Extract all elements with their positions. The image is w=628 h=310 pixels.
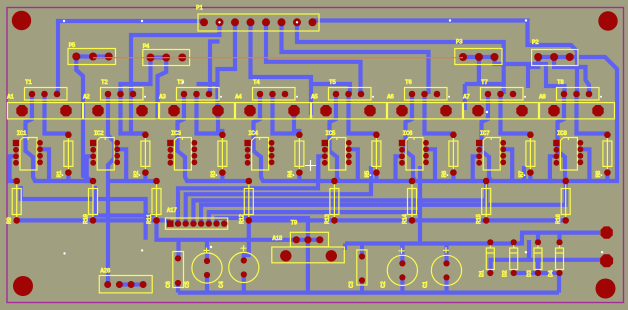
relay A8 <box>540 103 615 119</box>
pad right octagon 1 <box>600 226 612 238</box>
mounting hole bottom-right <box>596 279 616 299</box>
resistor R15 <box>485 184 487 217</box>
wire C3 top up <box>360 244 364 257</box>
op-amp IC3 <box>174 138 191 171</box>
wire A4-A5 gap branch down <box>309 84 313 115</box>
resistor R5 <box>375 137 377 170</box>
resistor R8 <box>606 137 608 170</box>
svg-text:T4: T4 <box>253 79 260 86</box>
svg-text:A2: A2 <box>83 94 90 101</box>
resistor R6 <box>452 137 454 170</box>
connector T1 <box>25 88 68 101</box>
transformer T9 <box>272 247 345 263</box>
svg-text:D1: D1 <box>478 270 485 277</box>
svg-text:T5: T5 <box>329 79 336 86</box>
wire T6 pad2 down to R6 top <box>425 94 454 135</box>
wire P3 pad2 down to y84 bar <box>477 57 481 84</box>
connector T2 <box>101 88 144 101</box>
wire T3 bar from pad3 route to T3 pad2 <box>197 82 218 86</box>
svg-text:P1: P1 <box>196 5 203 12</box>
wire P1 pad3 to A3 right big pad <box>218 22 236 110</box>
relay A3 <box>160 103 235 119</box>
wire C5 top stub <box>205 240 209 261</box>
wire C1 bottom to bus <box>444 279 448 293</box>
wire C6 top stub <box>176 240 180 259</box>
op-amp IC1 <box>20 138 37 171</box>
wire P1 pad6 to T6 pad2 <box>282 22 429 94</box>
wire P1 pad2 to R2 top via x131 <box>131 22 220 134</box>
wire top right rail from P1 pad8 to P2 pad3 <box>314 21 577 95</box>
resistor R10 <box>92 184 94 217</box>
wire T4 pad2 down to R4 top <box>273 94 300 135</box>
svg-text:A5: A5 <box>311 94 318 101</box>
wire R7 bottom to y181 run <box>528 173 532 181</box>
wire T3 pad2 down to R3 top <box>197 94 223 135</box>
wire T8 pad2 down to R8 top <box>577 94 608 135</box>
wire channel6 vertical to caps bus <box>418 166 422 244</box>
resistor R7 <box>529 137 531 170</box>
wire mid line A channel1 to fan area <box>21 186 146 240</box>
wire P4 pad1 down to T2 pad2 <box>121 58 151 95</box>
wire IC6 left pad3 to y181 run <box>396 156 403 181</box>
wire A18 middle pad down to bottom bus <box>306 240 310 293</box>
pad right octagon 2 <box>600 254 613 267</box>
wire P2 pad2 over to T8 pad3 <box>554 57 589 94</box>
wire IC2 left pad3 to y181 run <box>87 156 94 181</box>
connector T4 <box>253 88 296 101</box>
ratsnest airwire P5 to P3 <box>93 57 463 59</box>
svg-text:R10: R10 <box>83 214 90 224</box>
svg-text:D3: D3 <box>526 270 533 277</box>
connector T8 <box>557 88 600 101</box>
svg-text:R4: R4 <box>287 170 294 177</box>
wire A17 pad6 level to channel6 drop <box>209 212 420 224</box>
svg-text:C2: C2 <box>380 281 387 288</box>
svg-text:IC3: IC3 <box>171 130 181 137</box>
wire A17 pad2 level up at channel5 <box>178 166 318 224</box>
svg-text:IC7: IC7 <box>480 130 490 137</box>
wire P1 pad4 down then right to T5 pad2 <box>251 22 351 94</box>
svg-text:A6: A6 <box>387 94 394 101</box>
relay A6 <box>388 103 463 119</box>
wire A3 right pad down to R3 top <box>218 110 222 135</box>
svg-text:IC5: IC5 <box>325 130 335 137</box>
wire C5 bottom to bus <box>205 275 209 293</box>
svg-text:A18: A18 <box>272 235 282 242</box>
resistor R4 <box>298 137 300 170</box>
wire T5 pad1 down to y181 run channel 5 <box>330 94 413 181</box>
wire D1 bottom to octagon pad 2 <box>491 260 600 273</box>
wire P1 pad1 left rail to T1 pad3 <box>57 21 205 94</box>
wire P1 pad7 down to T7 pad2 bar <box>297 22 504 84</box>
diode D2 <box>513 244 515 248</box>
connector T6 <box>405 88 448 101</box>
resistor R12 <box>248 184 250 217</box>
wire D2-D4 bottom bus down to bottom bus <box>514 273 559 293</box>
wire P3 pad3 over to T8 pad1 <box>495 57 565 94</box>
svg-text:R16: R16 <box>555 214 562 224</box>
wire C1 top stub <box>444 244 448 263</box>
svg-text:R8: R8 <box>595 170 602 177</box>
diode D1 <box>489 244 491 248</box>
wire T8 pad1 down to y181 run channel 8 <box>558 94 608 181</box>
wire R2 bottom to y181 run <box>143 173 147 181</box>
resistor R14 <box>411 184 413 217</box>
connector A17 <box>165 218 227 229</box>
svg-text:A7: A7 <box>463 94 470 101</box>
resistor R11 <box>156 184 158 217</box>
op-amp IC6 <box>406 138 423 171</box>
svg-text:IC6: IC6 <box>403 130 413 137</box>
resistor R2 <box>144 137 146 170</box>
wire IC5 left pad3 to y181 run <box>318 156 325 181</box>
diode D4 <box>559 244 561 248</box>
capacitor C6 <box>173 252 184 288</box>
wire mid line B to R11 area <box>95 186 155 216</box>
connector P2 <box>538 55 570 59</box>
wire IC2 right pad2 jog <box>117 149 126 181</box>
wire IC8 right pad2 jog <box>580 149 589 181</box>
connector T5 <box>329 88 372 101</box>
wire C4 bottom to bus <box>242 275 246 293</box>
wire R12 bottom down to C4 top <box>244 220 249 260</box>
wire A4 right pad down to R4 top <box>294 110 299 135</box>
svg-text:T8: T8 <box>557 79 564 86</box>
relay A5 <box>312 103 387 119</box>
svg-text:C1: C1 <box>422 281 429 288</box>
wire IC1 left pad3 to y181 run <box>10 156 17 181</box>
wire caps top bus to octagon pad 1 <box>345 233 600 244</box>
wire A17 pad4 level to R15 top <box>193 181 486 224</box>
capacitor C4 <box>229 252 259 282</box>
svg-text:A1: A1 <box>7 94 14 101</box>
svg-text:C6: C6 <box>165 281 172 288</box>
wire IC8 left pad3 to y181 run <box>550 156 557 181</box>
resistor R13 <box>333 184 335 217</box>
wire P2 pad1 stub <box>528 57 538 88</box>
connector A18 <box>296 238 320 242</box>
wire bottom resistor bus right R12-R16 <box>249 218 566 222</box>
wire bottom bus <box>178 291 559 295</box>
svg-text:A3: A3 <box>159 94 166 101</box>
resistor R3 <box>221 137 223 170</box>
resistor R1 <box>67 137 69 170</box>
wire T2 pad2 down to R2 top <box>121 94 146 135</box>
svg-text:C3: C3 <box>348 281 355 288</box>
op-amp IC4 <box>252 138 269 171</box>
wire C2 bottom to bus <box>400 279 404 293</box>
svg-text:R6: R6 <box>441 170 448 177</box>
op-amp IC5 <box>329 138 346 171</box>
wire P5 pad1 down through A1-A2 gap to R10 top <box>76 58 93 182</box>
svg-text:T1: T1 <box>25 79 32 86</box>
mounting hole top-left <box>12 11 31 30</box>
svg-text:R7: R7 <box>518 170 525 177</box>
wire IC7 right pad2 jog <box>503 149 512 181</box>
connector P3 <box>463 55 495 59</box>
svg-text:T6: T6 <box>405 79 412 86</box>
wire IC7 left pad3 to y181 run <box>473 156 480 181</box>
wire y84 bar left branch down A6-A7 gap <box>463 84 467 110</box>
svg-text:A8: A8 <box>539 94 546 101</box>
resistor R9 <box>16 184 18 217</box>
wire T1 pad1 down to y181 run channel 1 <box>26 94 94 181</box>
wire R4 bottom to y181 run <box>297 173 301 181</box>
svg-text:R12: R12 <box>238 214 245 224</box>
relay A1 <box>8 103 83 119</box>
mounting hole top-right <box>598 11 617 30</box>
svg-text:R1: R1 <box>56 170 63 177</box>
wire bottom resistor bus left R9-R11 to A17 pad1 <box>17 218 171 222</box>
wire A17 pad5 level to R16 top <box>201 181 566 224</box>
svg-text:P3: P3 <box>456 39 463 46</box>
wire T2 pad1 down to y181 run channel 2 <box>108 94 115 285</box>
svg-text:R2: R2 <box>133 170 140 177</box>
svg-text:R15: R15 <box>476 214 483 224</box>
wire A17 pad7 level to A18 middle <box>217 218 308 240</box>
relay A7 <box>464 103 539 119</box>
svg-text:IC8: IC8 <box>557 130 567 137</box>
wire R3 bottom to y181 run <box>220 173 224 181</box>
svg-text:P4: P4 <box>143 43 150 50</box>
cursor cross marker <box>305 160 316 171</box>
svg-text:R11: R11 <box>146 214 153 224</box>
wire D3 top stub <box>536 233 540 243</box>
capacitor C3 <box>357 250 367 285</box>
svg-text:C5: C5 <box>184 281 191 288</box>
wire P2 pad3 to right rail down to R8 bottom <box>570 57 617 181</box>
wire T7 pad2 down to R7 top <box>501 94 531 135</box>
wire T7 pad1 down to y181 run channel 7 <box>482 94 566 181</box>
svg-text:A4: A4 <box>235 94 242 101</box>
wire IC6 right pad2 jog <box>426 149 435 181</box>
connector T3 <box>177 88 220 101</box>
wire T4 pad1 down to y181 run channel 4 <box>254 94 335 181</box>
wire y84 bar at T7 <box>465 82 504 86</box>
svg-text:IC1: IC1 <box>17 130 27 137</box>
svg-text:R13: R13 <box>324 214 331 224</box>
wire P1 pad2 branch to T3 pad3 <box>210 42 220 95</box>
wire T3 pad1 down to y181 run channel 3 <box>178 94 249 181</box>
svg-text:C4: C4 <box>218 281 225 288</box>
svg-text:R9: R9 <box>6 217 13 224</box>
svg-text:D2: D2 <box>502 270 509 277</box>
resistor R16 <box>565 184 567 217</box>
wire P1 pad5 to T5 pad3 <box>266 22 361 94</box>
svg-text:P5: P5 <box>69 42 76 49</box>
wire riser from D1 line to octagon bus <box>527 240 531 260</box>
svg-text:R14: R14 <box>402 214 409 224</box>
wire D3 bottom stub up <box>536 260 540 273</box>
capacitor C5 <box>192 253 222 283</box>
wire P4 pad2 down through A2-A3 gap <box>158 58 167 121</box>
connector A26 <box>99 276 152 293</box>
wire y84 bar right branch to T7 pad2 <box>502 84 506 94</box>
diode D3 <box>537 244 539 248</box>
wire C6 bottom to bus <box>176 283 180 293</box>
wire R8 bottom to y181 run <box>605 173 609 181</box>
wire C2 top stub <box>400 244 404 263</box>
wire R5 bottom to y181 run <box>374 173 378 181</box>
wire C3 bottom to bus <box>360 280 364 292</box>
mounting hole bottom-left <box>13 276 33 296</box>
svg-text:A17: A17 <box>167 207 177 214</box>
connector P5 <box>76 54 108 58</box>
wire A17 pad3 level up at R5 <box>186 166 371 224</box>
svg-text:A26: A26 <box>100 268 110 275</box>
connector T7 <box>481 88 524 101</box>
wire T5 pad2 down to R5 top <box>349 94 377 135</box>
via markers <box>63 20 65 22</box>
wire R6 bottom to y181 run <box>451 173 455 181</box>
svg-text:T7: T7 <box>481 79 488 86</box>
op-amp IC8 <box>560 138 577 171</box>
capacitor C1 <box>431 255 461 285</box>
op-amp IC2 <box>97 138 114 171</box>
wire R1 bottom to y181 run <box>66 173 70 181</box>
relay A2 <box>84 103 159 119</box>
connector P4 <box>151 55 167 59</box>
capacitor C2 <box>387 255 417 285</box>
svg-text:T2: T2 <box>101 79 108 86</box>
wire vertical IC7 to y181 run <box>522 166 526 181</box>
wire T1 pad2 down to R1 top <box>45 94 69 135</box>
wire IC1 right pad2 jog <box>40 149 49 181</box>
svg-text:IC2: IC2 <box>94 130 104 137</box>
svg-text:T9: T9 <box>291 220 298 227</box>
svg-text:R5: R5 <box>364 170 371 177</box>
svg-text:R3: R3 <box>210 170 217 177</box>
svg-text:IC4: IC4 <box>248 130 258 137</box>
relay A4 <box>236 103 311 119</box>
wire D4 top stub <box>557 233 561 243</box>
wire IC5 right pad2 jog <box>349 149 358 181</box>
svg-text:P2: P2 <box>532 39 539 46</box>
wire T6 pad1 down to y181 run channel 6 <box>406 94 487 181</box>
wire R11 bottom down to A18 pad1 <box>157 220 297 239</box>
connector P1 <box>198 14 319 31</box>
op-amp IC7 <box>483 138 500 171</box>
wire caps top bus T9 end <box>343 244 347 251</box>
svg-text:D4: D4 <box>548 270 555 277</box>
